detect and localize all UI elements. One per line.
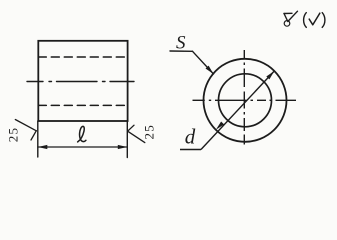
diameter dimension line at 45 degrees <box>201 71 274 150</box>
dimension line for length <box>38 146 128 148</box>
surface finish symbol circle <box>284 21 290 27</box>
dimension arrowhead right <box>118 145 128 149</box>
svg-text:25: 25 <box>6 127 21 142</box>
right extension line <box>126 121 128 158</box>
side view outline rectangle <box>38 41 127 121</box>
surface finish symbol strokes <box>284 11 298 21</box>
right chamfer callout leader <box>128 125 145 142</box>
end view outer circle <box>204 59 287 142</box>
parenthesis right <box>322 13 325 28</box>
svg-text:S: S <box>176 33 186 54</box>
vertical centerline of end view <box>243 50 245 145</box>
parenthesis left <box>304 13 307 28</box>
lower hidden (dashed) bore line <box>38 104 127 106</box>
diameter arrowhead lower-left <box>216 122 224 130</box>
horizontal centerline of side view <box>27 81 134 83</box>
left extension line <box>37 121 39 157</box>
svg-text:d: d <box>185 125 196 149</box>
upper hidden (dashed) bore line <box>38 56 127 58</box>
end view inner circle <box>219 74 272 127</box>
horizontal centerline of end view <box>193 99 297 101</box>
wall thickness leader S <box>170 51 214 74</box>
svg-text:25: 25 <box>141 124 156 139</box>
diameter arrowhead upper-right <box>266 71 274 79</box>
dimension arrowhead left <box>38 145 48 149</box>
label d underline <box>180 149 201 151</box>
length label script ell <box>78 126 86 142</box>
left chamfer callout leader <box>15 120 36 141</box>
basic check mark <box>309 13 320 25</box>
wall thickness arrowhead <box>206 66 214 74</box>
